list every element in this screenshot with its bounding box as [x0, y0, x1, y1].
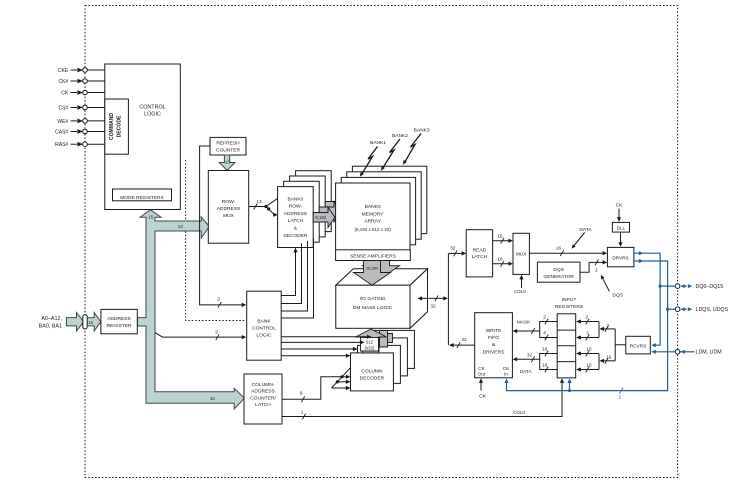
block: COLUMN-ADDRESS COUNTER/LATCH — [244, 374, 282, 424]
chip boundary (dashed border) — [85, 6, 678, 478]
wire: COL0 from column counter (width 1) — [282, 378, 564, 419]
svg-text:CS#: CS# — [58, 105, 68, 111]
wire: DQ output net (drivers to DQ pads and receivers) — [634, 251, 675, 347]
svg-text:COMMAND: COMMAND — [109, 113, 115, 140]
svg-text:COL0: COL0 — [514, 289, 526, 294]
svg-text:MUX: MUX — [516, 252, 527, 257]
block: MODE REGISTERS — [113, 189, 172, 201]
wire: data bus to read latch (32) — [448, 245, 466, 256]
bus width label: 512 (x32) — [361, 338, 379, 352]
block: REFRESH COUNTER — [210, 137, 246, 155]
block stack: BANK0 MEMORY ARRAY (4 banks) — [336, 166, 427, 250]
svg-text:2: 2 — [215, 330, 218, 335]
svg-text:8,192: 8,192 — [315, 215, 326, 220]
svg-text:GENERATOR: GENERATOR — [543, 274, 574, 280]
bus arrow: sense amps to I/O gating (behind) — [363, 254, 400, 278]
svg-text:DECODER: DECODER — [283, 233, 308, 239]
svg-text:I/O GATING: I/O GATING — [359, 296, 385, 302]
svg-text:BANK2: BANK2 — [392, 133, 408, 139]
svg-text:16: 16 — [606, 355, 612, 360]
svg-text:DATA: DATA — [579, 227, 592, 233]
input pin WE# — [57, 119, 104, 125]
svg-text:CK: CK — [61, 90, 69, 96]
wire: receivers split node — [615, 329, 626, 361]
svg-text:DECODE: DECODE — [116, 115, 122, 137]
block: BANK CONTROL LOGIC — [247, 291, 282, 360]
svg-text:16: 16 — [542, 347, 548, 352]
input pads A0-A12, BA0, BA1 — [39, 316, 63, 329]
svg-text:32: 32 — [450, 245, 456, 250]
block: COMMAND DECODE (rotated) — [105, 99, 129, 154]
bus arrow slivers: 512x32 stacked banks — [380, 331, 393, 348]
svg-text:(8,192 x 512 x 32): (8,192 x 512 x 32) — [354, 227, 391, 232]
svg-text:1: 1 — [301, 410, 304, 415]
svg-text:CONTROL: CONTROL — [139, 105, 165, 111]
svg-text:13: 13 — [225, 160, 230, 165]
wire: mux to output drivers (16) with DATA label — [529, 227, 607, 256]
svg-text:DQ0–DQ15: DQ0–DQ15 — [696, 284, 724, 290]
pad: DQ0-DQ15 — [675, 284, 723, 290]
inner dashed partition line — [186, 160, 247, 321]
svg-text:ADDRESS: ADDRESS — [217, 206, 241, 212]
svg-text:BANK: BANK — [257, 319, 271, 325]
svg-text:BANK0: BANK0 — [288, 196, 304, 202]
svg-text:MODE REGISTERS: MODE REGISTERS — [120, 195, 163, 201]
wires: receivers to input registers - mask side (2,2) — [576, 315, 615, 341]
svg-text:2: 2 — [543, 330, 546, 335]
svg-text:BA0, BA1: BA0, BA1 — [39, 323, 62, 329]
svg-text:DATA: DATA — [520, 369, 533, 374]
svg-text:LDM, UDM: LDM, UDM — [696, 350, 722, 356]
svg-text:DQS: DQS — [612, 293, 623, 299]
svg-text:WRITE: WRITE — [486, 328, 502, 334]
svg-text:16: 16 — [497, 257, 503, 262]
svg-text:2: 2 — [217, 296, 220, 301]
svg-text:ADDRESS: ADDRESS — [284, 211, 307, 217]
wire: refresh counter / bank control (width 2) — [200, 146, 247, 308]
svg-text:LATCH: LATCH — [472, 254, 488, 260]
svg-text:15: 15 — [88, 320, 93, 325]
svg-text:SENSE AMPLIFIERS: SENSE AMPLIFIERS — [350, 254, 396, 260]
svg-text:CK: CK — [478, 366, 485, 371]
svg-text:MEMORY: MEMORY — [362, 211, 385, 217]
svg-text:16: 16 — [586, 347, 592, 352]
svg-text:Out: Out — [478, 372, 486, 377]
wires: read latch to mux (16,16) — [493, 234, 513, 267]
svg-text:2: 2 — [585, 315, 588, 320]
svg-text:15: 15 — [148, 214, 154, 219]
svg-text:2: 2 — [586, 331, 589, 336]
svg-text:CK: CK — [503, 366, 510, 371]
svg-text:16: 16 — [497, 234, 503, 239]
svg-text:COL0: COL0 — [513, 410, 525, 415]
block stack: BANK0 ROW-ADDRESS LATCH & DECODER (4 banks) — [278, 171, 332, 248]
block: READ LATCH — [466, 230, 492, 277]
label: DQS with pointer arrow — [601, 275, 624, 299]
svg-text:DECODER: DECODER — [360, 376, 385, 382]
wire: DLL to drivers — [618, 232, 622, 247]
svg-text:CAS#: CAS# — [55, 129, 68, 135]
block: WRITE FIFO & DRIVERS — [475, 313, 513, 378]
svg-text:WE#: WE# — [57, 119, 68, 125]
svg-text:COUNTER/: COUNTER/ — [250, 395, 276, 401]
svg-text:COUNTER: COUNTER — [216, 147, 241, 153]
block: DRVRS (output drivers) — [607, 247, 634, 266]
bus arrows: 8,192 row lines (stacked, behind) — [319, 196, 347, 222]
block: DQS GENERATOR — [537, 262, 580, 282]
svg-text:16: 16 — [542, 363, 548, 368]
svg-text:LDQS, UDQS: LDQS, UDQS — [696, 307, 729, 313]
svg-text:ADDRESS: ADDRESS — [107, 316, 131, 322]
block: MUX — [513, 233, 529, 274]
svg-text:BANK3: BANK3 — [414, 128, 430, 134]
svg-text:10: 10 — [210, 396, 216, 401]
bus: refresh counter to row mux (width 13) — [219, 155, 235, 170]
input pin RAS# — [55, 142, 105, 148]
svg-text:LOGIC: LOGIC — [256, 333, 272, 339]
svg-text:ARRAY: ARRAY — [364, 219, 381, 225]
input pin CK (to DLL) — [616, 203, 624, 222]
svg-text:MUX: MUX — [223, 213, 235, 219]
svg-text:MASK: MASK — [517, 319, 531, 324]
bus: address input arrow — [66, 313, 83, 331]
bus arrow: sense amps to I/O gating, 16,384 (front) — [354, 261, 391, 286]
svg-text:INPUT: INPUT — [562, 297, 577, 303]
svg-text:READ: READ — [473, 248, 487, 254]
svg-text:REFRESH: REFRESH — [216, 141, 240, 147]
svg-text:16: 16 — [556, 245, 562, 250]
input pin CK# — [58, 79, 104, 85]
svg-text:COLUMN-: COLUMN- — [252, 382, 275, 388]
wire: DQS net (drivers to DQS pads, input register clock) — [504, 259, 675, 400]
bus arrow: column decoder to I/O gating (up) — [356, 329, 387, 353]
bus: address bus trunk (to control logic, row mux, column counter) — [137, 210, 244, 409]
svg-text:DLL: DLL — [617, 225, 626, 230]
bus: address input arrow 2 with width 15 — [87, 313, 100, 331]
svg-text:CK#: CK# — [58, 79, 68, 85]
block: ROW-ADDRESS MUX — [208, 171, 248, 244]
svg-text:BANK1: BANK1 — [370, 140, 386, 146]
wire: COL0 stub into mux — [514, 275, 526, 294]
wires: input registers to write FIFO - DATA (16+16=32) — [513, 347, 558, 374]
svg-text:CK: CK — [616, 203, 624, 209]
svg-text:CKE: CKE — [58, 68, 69, 74]
svg-text:32: 32 — [527, 352, 533, 357]
svg-text:FIFO: FIFO — [488, 335, 499, 341]
svg-text:REGISTER: REGISTER — [106, 323, 131, 329]
svg-text:RAS#: RAS# — [55, 142, 68, 148]
svg-text:ROW-: ROW- — [222, 199, 236, 205]
svg-text:ROW-: ROW- — [289, 204, 303, 210]
svg-text:(x32): (x32) — [365, 346, 375, 351]
svg-text:32: 32 — [430, 303, 436, 308]
svg-text:DQS: DQS — [553, 267, 564, 273]
block: INPUT REGISTERS (4 registers) — [555, 297, 584, 378]
svg-text:A0–A12,: A0–A12, — [41, 316, 62, 322]
svg-text:13: 13 — [178, 224, 184, 229]
input pin CK (to write FIFO) — [479, 378, 487, 399]
block: RCVRS (input receivers) — [626, 336, 651, 354]
wire: write FIFO to data bus (32) — [449, 337, 475, 348]
svg-text:2: 2 — [618, 395, 621, 400]
svg-text:4: 4 — [544, 335, 547, 340]
wires: input registers to write FIFO - MASK (2+2=4) — [513, 315, 558, 341]
svg-text:BANK0: BANK0 — [365, 204, 381, 210]
wire: address register to bank control (width 2) — [155, 330, 246, 341]
label: BANK1 with bolt arrow — [360, 140, 386, 177]
svg-text:COLUMN: COLUMN — [361, 368, 383, 374]
input pin CK — [61, 90, 105, 96]
input pin CAS# — [55, 129, 105, 135]
svg-text:In: In — [504, 372, 508, 377]
svg-text:RCVRS: RCVRS — [630, 343, 646, 348]
block: I/O GATING / DM MASK LOGIC (3D) — [336, 269, 428, 329]
pad capsule on border — [83, 315, 87, 329]
svg-text:2: 2 — [595, 267, 598, 272]
svg-text:ADDRESS: ADDRESS — [251, 389, 275, 395]
block: ADDRESS REGISTER — [101, 309, 137, 333]
block: SENSE AMPLIFIERS — [336, 250, 411, 261]
block: CONTROL LOGIC — [105, 64, 181, 210]
pad: LDM, UDM (to receivers) — [651, 350, 722, 356]
svg-text:2: 2 — [607, 323, 610, 328]
wire: internal 32-bit data bus vertical — [447, 253, 449, 345]
input pin CS# — [58, 105, 104, 111]
svg-text:CONTROL: CONTROL — [252, 326, 276, 332]
bus arrow: 8,192 (front) — [313, 207, 335, 228]
block: DLL — [612, 222, 629, 232]
svg-text:16,384: 16,384 — [366, 266, 379, 271]
svg-text:LATCH: LATCH — [288, 218, 304, 224]
svg-text:32: 32 — [461, 337, 467, 342]
svg-text:2: 2 — [543, 315, 546, 320]
wire: column counter to column decoder (width 9) — [282, 368, 351, 402]
svg-text:CK: CK — [479, 393, 487, 399]
wire: DQS generator to drivers (2) — [580, 260, 607, 273]
wire: row mux to bank row-address latches (width 13) — [249, 197, 280, 217]
block stack: COLUMN DECODER (4 banks) — [351, 330, 415, 391]
bus: I/O gating to read/write data bus (32, bidirectional) — [418, 296, 448, 309]
wires: bank control to column decoders (4 bank selects) — [281, 335, 371, 358]
pad: LDQS, UDQS — [675, 307, 728, 313]
svg-text:LOGIC: LOGIC — [144, 112, 161, 118]
svg-text:REGISTERS: REGISTERS — [555, 304, 584, 310]
svg-text:13: 13 — [256, 199, 262, 204]
svg-text:DRIVERS: DRIVERS — [483, 349, 505, 355]
svg-text:9: 9 — [300, 391, 303, 396]
label: BANK3 with bolt arrow — [403, 128, 430, 165]
svg-text:LATCH: LATCH — [255, 402, 271, 408]
wires: receivers to input registers - data side (16,16) — [576, 347, 615, 373]
input pin CKE — [58, 68, 105, 74]
wires: bank control to row-address latches (4 bank selects) — [281, 238, 313, 318]
label: BANK2 with bolt arrow — [381, 133, 408, 171]
svg-text:16: 16 — [586, 363, 592, 368]
svg-text:DRVRS: DRVRS — [612, 255, 628, 260]
svg-text:512: 512 — [366, 339, 374, 344]
svg-text:DM MASK LOGIC: DM MASK LOGIC — [353, 305, 393, 311]
